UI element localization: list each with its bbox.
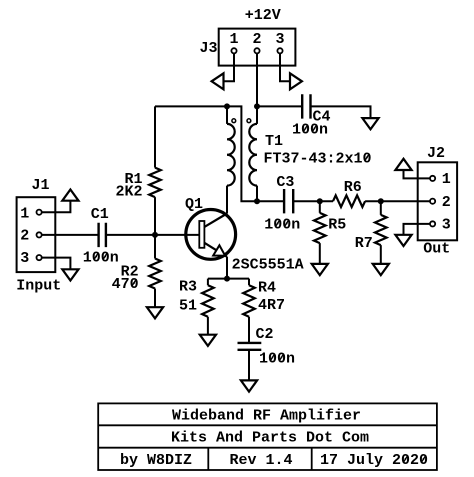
svg-text:by W8DIZ: by W8DIZ	[120, 452, 192, 469]
svg-text:R7: R7	[355, 235, 373, 252]
svg-text:1: 1	[442, 171, 451, 188]
svg-text:3: 3	[442, 217, 451, 234]
svg-text:100n: 100n	[259, 351, 295, 368]
svg-text:R4: R4	[258, 280, 276, 297]
svg-text:3: 3	[20, 250, 29, 267]
svg-text:C3: C3	[276, 174, 294, 191]
svg-text:Wideband RF Amplifier: Wideband RF Amplifier	[172, 408, 361, 425]
svg-text:2: 2	[252, 31, 261, 48]
svg-text:2: 2	[442, 194, 451, 211]
svg-text:J1: J1	[31, 177, 49, 194]
svg-text:3: 3	[275, 31, 284, 48]
svg-text:2: 2	[20, 228, 29, 245]
svg-text:100n: 100n	[292, 122, 328, 139]
svg-text:Out: Out	[423, 240, 450, 257]
svg-text:470: 470	[112, 276, 139, 293]
svg-text:51: 51	[179, 298, 197, 315]
svg-text:1: 1	[229, 31, 238, 48]
svg-text:Q1: Q1	[185, 196, 203, 213]
svg-text:17 July 2020: 17 July 2020	[320, 452, 428, 469]
svg-text:FT37-43:2x10: FT37-43:2x10	[264, 151, 372, 168]
svg-text:C2: C2	[256, 326, 274, 343]
svg-text:Kits And Parts Dot Com: Kits And Parts Dot Com	[171, 430, 369, 447]
svg-text:2K2: 2K2	[115, 184, 142, 201]
svg-text:4R7: 4R7	[258, 297, 285, 314]
svg-text:C1: C1	[91, 206, 109, 223]
svg-text:100n: 100n	[83, 249, 119, 266]
svg-text:Rev 1.4: Rev 1.4	[229, 452, 292, 469]
svg-text:R5: R5	[328, 216, 346, 233]
svg-text:J2: J2	[427, 145, 445, 162]
svg-text:+12V: +12V	[245, 7, 281, 24]
svg-text:R6: R6	[344, 179, 362, 196]
svg-text:R3: R3	[179, 279, 197, 296]
svg-text:Input: Input	[16, 278, 61, 295]
svg-text:1: 1	[20, 205, 29, 222]
svg-text:J3: J3	[199, 40, 217, 57]
svg-text:100n: 100n	[264, 216, 300, 233]
svg-text:T1: T1	[265, 133, 283, 150]
svg-text:2SC5551A: 2SC5551A	[232, 256, 304, 273]
